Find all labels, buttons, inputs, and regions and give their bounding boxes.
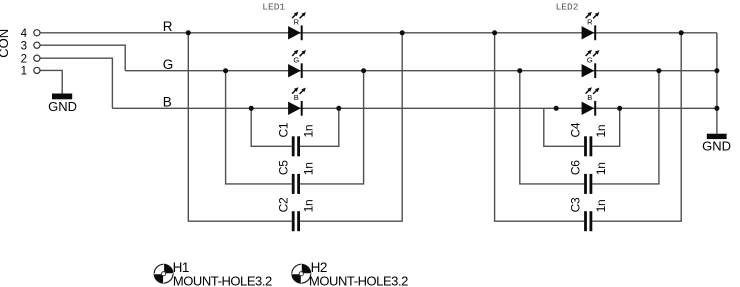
capacitor C1 <box>292 136 300 156</box>
svg-text:B: B <box>294 93 299 102</box>
connector pin 1 <box>21 66 40 78</box>
mounting hole H2 symbol <box>292 264 311 283</box>
ground symbol GND (left) <box>48 94 77 115</box>
svg-text:G: G <box>163 57 174 72</box>
junction C3 right on R bus <box>679 30 684 35</box>
wire net B: B bus <box>112 107 717 109</box>
capacitor C2 <box>292 211 300 231</box>
svg-text:1n: 1n <box>594 162 608 175</box>
capacitor C6 <box>584 174 592 194</box>
connector pin 2 <box>21 53 40 65</box>
svg-text:C6: C6 <box>569 160 583 175</box>
wire net G: pin 3 jog down <box>40 45 125 70</box>
svg-text:MOUNT-HOLE3.2: MOUNT-HOLE3.2 <box>173 274 272 287</box>
capacitor C5 <box>292 174 300 194</box>
svg-text:C1: C1 <box>276 122 290 137</box>
junction C4 right on B bus <box>617 106 622 111</box>
connector pin 3 <box>21 40 40 52</box>
LED LED1 green chip with G label and light arrows <box>288 50 306 78</box>
svg-text:LED2: LED2 <box>556 1 579 12</box>
svg-text:2: 2 <box>21 53 27 65</box>
svg-text:C3: C3 <box>569 197 583 212</box>
wire net B: pin 2 jog down <box>40 58 112 108</box>
junction B bus to right rail <box>714 106 719 111</box>
svg-text:C2: C2 <box>276 197 290 212</box>
wire C2 loop around LED1 red <box>188 33 402 221</box>
ground symbol GND (right) <box>702 134 731 154</box>
wire C6 loop around LED2 green <box>520 71 659 184</box>
junction C2 left on R bus <box>186 30 191 35</box>
junction G bus to right rail <box>714 68 719 73</box>
LED LED2 red chip with R label and light arrows <box>582 12 600 40</box>
svg-text:R: R <box>163 19 173 34</box>
wire net R: pin 4 to R bus across to right rail <box>40 32 717 34</box>
wire pin 1 to ground <box>40 70 62 93</box>
junction C6 left on G bus <box>517 68 522 73</box>
wire right rail down to ground <box>716 33 718 134</box>
junction C1 right on B bus <box>336 106 341 111</box>
capacitor C4 <box>584 136 592 156</box>
svg-text:1n: 1n <box>594 200 608 213</box>
svg-text:1: 1 <box>21 66 27 78</box>
svg-text:1n: 1n <box>302 125 316 138</box>
svg-text:G: G <box>587 55 593 64</box>
connector pin 4 <box>21 28 40 40</box>
svg-text:C5: C5 <box>276 160 290 175</box>
svg-text:1n: 1n <box>594 125 608 138</box>
junction C5 left on G bus <box>223 68 228 73</box>
LED LED1 red chip with R label and light arrows <box>288 12 306 40</box>
svg-text:1n: 1n <box>302 162 316 175</box>
junction C3 left on R bus <box>492 30 497 35</box>
svg-text:C4: C4 <box>569 122 583 137</box>
junction C6 right on G bus <box>656 68 661 73</box>
svg-text:LED1: LED1 <box>262 1 285 12</box>
svg-text:GND: GND <box>48 99 77 114</box>
wire net G: G bus <box>125 70 717 72</box>
wire C4 loop around LED2 blue <box>544 108 620 146</box>
LED LED2 blue chip with B label and light arrows <box>582 87 600 115</box>
wire C1 loop around LED1 blue <box>251 108 339 146</box>
mounting hole H1 symbol <box>154 264 173 283</box>
svg-text:1n: 1n <box>302 200 316 213</box>
svg-text:3: 3 <box>21 40 27 52</box>
wire C5 loop around LED1 green <box>226 71 364 184</box>
svg-text:B: B <box>163 94 172 109</box>
junction C2 right on R bus <box>400 30 405 35</box>
wire C3 loop around LED2 red <box>495 33 682 221</box>
svg-text:R: R <box>587 17 593 26</box>
LED LED2 green chip with G label and light arrows <box>582 50 600 78</box>
junction C5 right on G bus <box>361 68 366 73</box>
LED LED1 blue chip with B label and light arrows <box>288 87 306 115</box>
svg-text:MOUNT-HOLE3.2: MOUNT-HOLE3.2 <box>309 274 408 287</box>
svg-text:GND: GND <box>702 139 731 154</box>
svg-text:4: 4 <box>21 28 28 40</box>
junction on B bus left of LED2 <box>554 106 559 111</box>
svg-text:R: R <box>294 17 300 26</box>
svg-text:G: G <box>293 55 299 64</box>
capacitor C3 <box>584 211 592 231</box>
junction C1 left on B bus <box>249 106 254 111</box>
svg-text:CON: CON <box>0 29 11 58</box>
svg-text:B: B <box>587 93 592 102</box>
